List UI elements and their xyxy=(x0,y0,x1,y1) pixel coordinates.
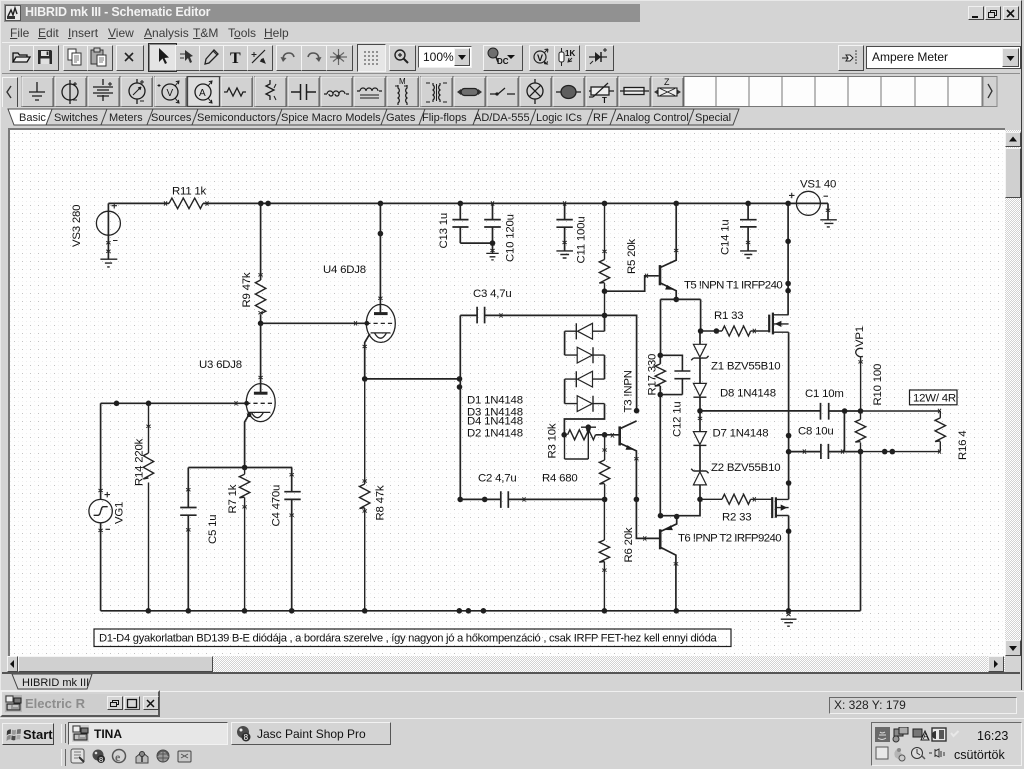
potentiometer R3 xyxy=(561,424,607,437)
save xyxy=(33,45,59,71)
Electric R mini window xyxy=(0,690,160,717)
wire top rail xyxy=(108,202,828,204)
min/max/close xyxy=(968,6,984,20)
svg-text:R7 1k: R7 1k xyxy=(227,484,239,513)
svg-text:U4 6DJ8: U4 6DJ8 xyxy=(323,264,366,276)
status bar xyxy=(0,691,1024,718)
svg-text:R14 220k: R14 220k xyxy=(134,438,146,486)
coupled inductors M xyxy=(395,77,407,105)
wire C13 to C10 xyxy=(460,242,492,244)
diode D7 xyxy=(693,432,706,445)
resistor R7 xyxy=(239,468,249,611)
wire R5 to T5 base xyxy=(605,276,659,291)
motor dark xyxy=(556,86,581,99)
svg-text:D1 1N4148: D1 1N4148 xyxy=(467,395,523,407)
mosfet T1 IRFP240 xyxy=(768,315,770,333)
wire C3 node to T3 collector column xyxy=(605,315,637,410)
voltage source xyxy=(62,80,78,104)
resistor R16 xyxy=(861,411,946,452)
empty cells xyxy=(684,77,982,107)
wire diode chain links xyxy=(564,315,604,434)
svg-text:R9 47k: R9 47k xyxy=(241,272,253,307)
wire C1-C8 link xyxy=(843,411,845,452)
svg-text:HIBRID mk III: HIBRID mk III xyxy=(22,677,89,689)
resistor h xyxy=(224,88,246,96)
fuse xyxy=(620,88,649,95)
resistor R17 xyxy=(655,364,665,386)
text T xyxy=(223,45,249,71)
svg-text:R6 20k: R6 20k xyxy=(623,527,635,562)
redo xyxy=(301,45,328,71)
battery xyxy=(93,79,113,101)
menu bar xyxy=(2,22,1020,42)
capacitor C12 xyxy=(660,355,690,394)
wire T3 emitter to T6 base xyxy=(636,499,660,538)
svg-text:C13 1u: C13 1u xyxy=(438,213,450,249)
wire cathode node U4 xyxy=(365,378,460,380)
quick launch icons xyxy=(70,748,210,766)
svg-text:C3 4,7u: C3 4,7u xyxy=(473,288,512,300)
sheet tab row xyxy=(2,672,1020,692)
box note xyxy=(94,629,731,647)
select arrow (active) xyxy=(148,43,177,72)
paste xyxy=(87,45,113,71)
grid toggle (pressed) xyxy=(357,44,386,72)
svg-text:e: e xyxy=(115,750,121,764)
Start button xyxy=(2,723,54,745)
diode D3 xyxy=(565,371,605,387)
box 12W/4R xyxy=(910,390,958,405)
crosshair xyxy=(326,45,353,71)
svg-text:12W/ 4R: 12W/ 4R xyxy=(913,393,956,405)
capacitor C8 xyxy=(789,444,861,459)
hand button xyxy=(838,45,864,71)
voltmeter xyxy=(158,81,180,103)
svg-text:R17 330: R17 330 xyxy=(647,354,659,396)
wire C3 column xyxy=(459,315,461,499)
svg-text:T5 !NPN T1 IRFP240: T5 !NPN T1 IRFP240 xyxy=(684,280,782,292)
resistor R10 xyxy=(855,411,865,452)
pen xyxy=(199,45,225,71)
wire U4 grid xyxy=(261,322,367,324)
copy xyxy=(63,45,89,71)
node dots bottom rail xyxy=(146,608,792,614)
resistor R4 xyxy=(599,435,609,500)
wire cathode node U3 xyxy=(188,467,292,469)
diode D4 xyxy=(565,396,605,412)
taskbar xyxy=(0,718,1024,769)
voltage source VS1 xyxy=(796,191,820,215)
wire R3 to T3 base xyxy=(596,434,620,436)
resistor R1 xyxy=(701,326,770,336)
capacitor C11 xyxy=(556,203,572,250)
ground (C14) xyxy=(740,251,757,258)
vertical scrollbar xyxy=(1005,130,1021,656)
inductor xyxy=(324,91,349,96)
svg-text:D8 1N4148: D8 1N4148 xyxy=(720,388,776,400)
ground xyxy=(29,82,45,100)
zener Z2 BZV55B10 xyxy=(691,469,708,473)
resistor R2 xyxy=(700,494,772,504)
horizontal scrollbar xyxy=(7,656,1005,672)
svg-text:U3 6DJ8: U3 6DJ8 xyxy=(199,359,242,371)
undo xyxy=(276,45,303,71)
ground (C11) xyxy=(556,251,573,258)
svg-text:D4 1N4148: D4 1N4148 xyxy=(467,416,523,428)
svg-text:T6 !PNP T2 IRFP9240: T6 !PNP T2 IRFP9240 xyxy=(678,533,781,545)
Z impedance xyxy=(654,77,681,96)
svg-text:VP1: VP1 xyxy=(854,326,866,347)
1K probe xyxy=(554,45,580,71)
resistor R6 xyxy=(599,499,609,610)
svg-text:R16 4: R16 4 xyxy=(957,431,969,460)
svg-text:C4 470u: C4 470u xyxy=(271,485,283,527)
capacitor C2 xyxy=(460,491,604,508)
capacitor C13 xyxy=(452,203,468,243)
svg-text:C5 1u: C5 1u xyxy=(207,515,219,544)
separator xyxy=(61,724,66,743)
wire T1 source column xyxy=(788,332,790,499)
transformer xyxy=(426,83,447,102)
resistor v arrows xyxy=(266,80,276,100)
svg-text:R8 47k: R8 47k xyxy=(375,485,387,520)
svg-text:T3 !NPN: T3 !NPN xyxy=(623,370,635,412)
quick launch separator xyxy=(61,749,66,766)
probe tool xyxy=(247,45,273,71)
svg-text:C2 4,7u: C2 4,7u xyxy=(478,473,517,485)
voltage source VS3 xyxy=(96,211,120,235)
capacitor C4 xyxy=(284,468,300,611)
title bar xyxy=(4,4,640,22)
potentiometer pill xyxy=(457,89,482,96)
ground (VS3) xyxy=(100,259,117,267)
wire T6 emitter node to Z2 xyxy=(661,499,701,515)
pin ticks xyxy=(98,201,941,616)
capacitor C14 xyxy=(740,203,757,250)
ground (C10) xyxy=(486,253,498,260)
toolbar row 1 xyxy=(2,42,1020,74)
switch xyxy=(490,88,515,95)
svg-text:C11 100u: C11 100u xyxy=(576,217,588,264)
wire R9 column xyxy=(260,203,262,280)
ground (VS1) xyxy=(820,220,837,227)
wire U3 grid row xyxy=(101,402,247,404)
capacitor C10 xyxy=(484,203,501,253)
svg-text:Z1 BZV55B10: Z1 BZV55B10 xyxy=(711,361,780,373)
resistor R14 xyxy=(143,403,153,611)
svg-text:D2 1N4148: D2 1N4148 xyxy=(467,428,523,440)
svg-text:C1 10m: C1 10m xyxy=(805,388,844,400)
ammeter (pressed) xyxy=(188,77,220,107)
svg-text:R11 1k: R11 1k xyxy=(172,186,207,198)
svg-text:R4 680: R4 680 xyxy=(542,473,578,485)
svg-text:8: 8 xyxy=(99,755,103,764)
Ampere Meter combo xyxy=(866,46,1021,69)
schematic text labels xyxy=(71,179,969,645)
svg-text:C12 1u: C12 1u xyxy=(672,401,684,437)
svg-text:R5 20k: R5 20k xyxy=(626,239,638,274)
svg-text:R3 10k: R3 10k xyxy=(547,423,559,458)
diode probe xyxy=(585,45,614,71)
svg-text:D7 1N4148: D7 1N4148 xyxy=(713,428,769,440)
svg-text:VS1 40: VS1 40 xyxy=(800,179,836,191)
svg-text:Z2 BZV55B10: Z2 BZV55B10 xyxy=(711,462,780,474)
right nav xyxy=(983,77,997,107)
wire VS1 drain column xyxy=(787,203,789,314)
transistor T3 NPN xyxy=(618,426,621,445)
canvas xyxy=(8,128,1005,656)
wire bottom rail xyxy=(101,610,861,612)
wire R10 to rail xyxy=(860,452,862,611)
V probe xyxy=(529,45,556,71)
Jasc task button xyxy=(231,722,391,745)
diode D1 xyxy=(565,323,605,339)
resistor R11 xyxy=(169,198,203,209)
diode D8 xyxy=(693,383,706,396)
meter xyxy=(129,79,145,104)
transistor T5 NPN xyxy=(659,265,662,285)
wire T2 source to rail xyxy=(788,516,790,611)
diode D2 xyxy=(565,347,605,363)
wire U3 plate column xyxy=(260,323,262,393)
component toolbar row 2 xyxy=(2,73,1020,108)
delete X xyxy=(116,45,144,71)
open xyxy=(9,45,35,71)
svg-text:C14 1u: C14 1u xyxy=(720,219,732,255)
capacitor C5 xyxy=(180,468,196,611)
capacitor xyxy=(291,84,316,100)
svg-text:VG1: VG1 xyxy=(114,502,126,524)
svg-text:C10 120u: C10 120u xyxy=(505,214,517,262)
triode U3 6DJ8 xyxy=(246,384,275,422)
capacitor C1 xyxy=(700,403,861,420)
varistor xyxy=(589,83,614,105)
svg-text:8: 8 xyxy=(244,733,249,742)
zoom combo xyxy=(418,46,472,68)
capacitor C3 xyxy=(460,307,604,324)
ground (rail) xyxy=(781,619,797,626)
tray xyxy=(871,722,1022,766)
generator VG1 xyxy=(100,403,102,499)
node dots top rail xyxy=(258,201,791,207)
resistor R8 xyxy=(360,379,370,611)
wire C2 node row xyxy=(457,497,639,503)
resistor R5 xyxy=(599,203,609,315)
zener Z1 BZV55B10 xyxy=(699,331,701,344)
20 filled cells xyxy=(22,77,684,108)
svg-text:VS3 280: VS3 280 xyxy=(71,205,83,247)
probe VP1 xyxy=(856,348,863,411)
wire arrow xyxy=(175,45,201,71)
TINA task button (pressed) xyxy=(68,722,228,745)
svg-text:D1-D4 gyakorlatban BD139 B-E: D1-D4 gyakorlatban BD139 B-E diódája , a… xyxy=(99,633,718,645)
svg-text:R2 33: R2 33 xyxy=(722,512,751,524)
inductor core xyxy=(357,88,382,98)
svg-text:A: A xyxy=(923,732,929,741)
magnifier xyxy=(389,45,416,71)
svg-text:R10 100: R10 100 xyxy=(872,364,884,406)
lamp xyxy=(527,79,543,104)
triode U4 6DJ8 xyxy=(366,304,395,342)
DC probe xyxy=(483,45,523,71)
resistor R9 xyxy=(255,280,265,314)
wire U4 plate xyxy=(379,203,381,313)
wire T5 emitter node xyxy=(661,299,701,355)
transistor T6 PNP xyxy=(659,529,662,549)
svg-text:C8 10u: C8 10u xyxy=(798,426,834,438)
svg-text:R1 33: R1 33 xyxy=(714,310,743,322)
wire R17 column xyxy=(659,355,661,515)
tab row xyxy=(2,107,1020,128)
mosfet T2 IRFP9240 xyxy=(771,497,773,518)
